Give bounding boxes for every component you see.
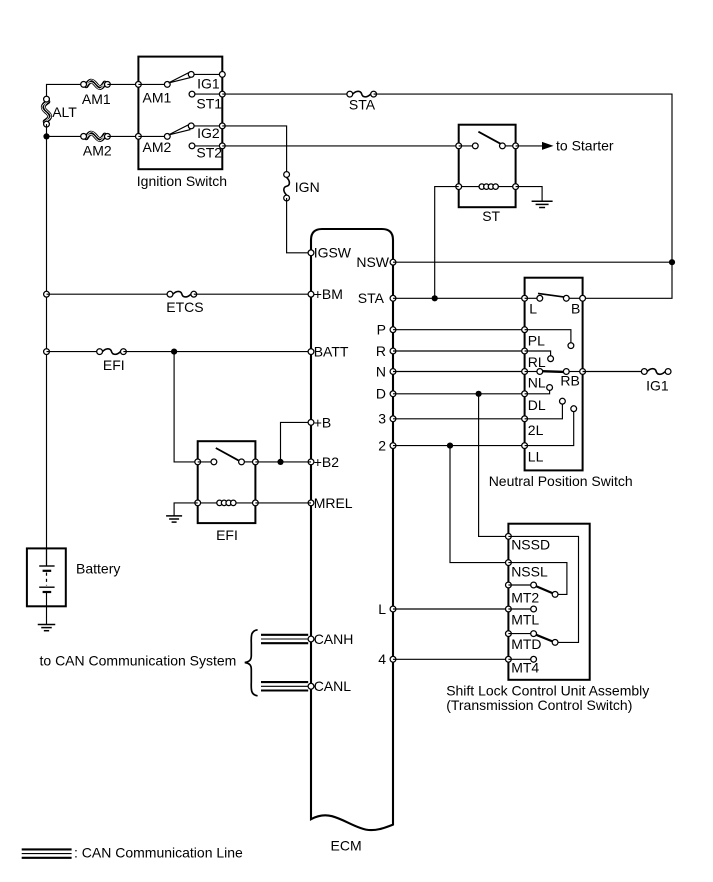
label 4 (ECM) [378,651,386,667]
ECM pin 4 [390,656,396,662]
svg-text:+B2: +B2 [314,454,340,470]
ECM pin L [390,606,396,612]
arrowhead to starter [542,142,554,150]
NPS contact RB [563,369,582,375]
svg-text:NSW: NSW [356,254,389,270]
wire L row [393,608,508,610]
svg-text:ST2: ST2 [196,145,222,161]
wire 3 row [393,418,525,420]
ST relay box [459,125,516,208]
fusible link AM2 [81,132,111,141]
label NSSL [511,563,548,579]
ECM pin CANH [308,636,314,642]
svg-text:STA: STA [349,97,376,113]
fusible link AM1 [81,80,111,89]
ECM pin MREL [308,500,314,506]
battery plate 2 short [43,570,52,572]
svg-text:AM2: AM2 [143,139,172,155]
label MREL [314,495,353,511]
wire ST coil to ground [516,187,543,202]
wire to starter arrow line [516,145,542,147]
wire AM2 fuse to ignition switch [107,135,138,137]
label PL [528,333,545,349]
ST relay pin coil-right [513,184,519,190]
svg-text:STA: STA [358,290,385,306]
label P (ECM) [377,322,386,338]
label +B2 [314,454,340,470]
legend CAN line sample [22,849,72,857]
EFI relay contact left [211,459,217,465]
wire left rail (below ALT to battery) [46,124,48,566]
CAN line CANH [261,635,308,643]
NPS contact NL [537,369,543,375]
label Ignition Switch [137,173,227,189]
wire D row to NSSD [479,394,509,537]
label ST2 (ignition) [196,145,222,161]
ECM pin +B [308,420,314,426]
label L (NPS) [529,301,537,317]
label ECM [331,838,362,854]
svg-text:RL: RL [528,354,546,370]
svg-text:NSSL: NSSL [511,563,548,579]
svg-text:D: D [376,386,386,402]
wire IG2 to IGN column [222,126,286,175]
EFI relay switch arm [216,448,239,460]
svg-text:ST: ST [482,208,500,224]
svg-text:CANH: CANH [314,631,354,647]
ST relay contact left [472,143,478,149]
ECM pin D [390,391,396,397]
label MTD [511,636,541,652]
label NSSD [511,537,550,553]
label IGN [295,179,320,195]
wire AM1 fuse to ignition switch [107,83,138,85]
SL arm MTD [536,635,553,642]
svg-text:EFI: EFI [103,357,125,373]
SL contact MT2 [531,582,537,588]
label N (ECM) [376,363,386,379]
wire +B branch [281,422,312,462]
svg-text:IGSW: IGSW [314,245,352,261]
label L (ECM) [378,601,386,617]
label DL [528,397,546,413]
NPS pin DL [522,390,550,396]
svg-text:NL: NL [528,375,546,391]
svg-text:2: 2 [378,438,386,454]
battery internal wire bottom [46,592,48,606]
label IG2 (ignition) [197,125,220,141]
label AM1 (ignition) [143,89,172,105]
node junction STA row / ST coil [432,295,438,301]
ground (ST relay) [532,201,553,207]
SL pin MTD [506,631,534,637]
label +B [314,414,332,430]
svg-text:RB: RB [560,373,579,389]
SL contact MT4 [531,656,537,662]
ignition switch arm AM2-IG2 [169,125,190,135]
svg-text:+B: +B [314,414,332,430]
ignition switch box [138,57,222,170]
EFI relay pin coil-left [195,500,201,506]
label EFI (relay) [216,527,238,543]
wire STA fuse to right rail [374,94,672,262]
svg-text:Neutral Position Switch: Neutral Position Switch [489,473,633,489]
ignition switch pin AM1 [136,82,168,88]
NPS contact P [568,343,574,349]
label AM2 (fuse) [83,143,112,159]
svg-text:IG2: IG2 [197,125,220,141]
ignition switch pin IG2 [219,123,225,129]
svg-text:R: R [376,343,386,359]
svg-text:PL: PL [528,333,545,349]
label Shift Lock Control Unit Assembly [446,683,649,699]
neutral position switch box [525,278,583,471]
label STA (fuse) [349,97,376,113]
wire N row [393,371,525,373]
label CANH [314,631,354,647]
svg-text:to Starter: to Starter [556,138,614,154]
ignition switch contact ST1 [189,91,222,97]
node junction D row [476,391,482,397]
battery dashed link [46,573,48,586]
label RL [528,354,546,370]
ignition switch contact ST2 [189,143,222,149]
svg-text:MT4: MT4 [511,660,539,676]
ECM pin CANL [308,683,314,689]
node junction ALT/AM2 [43,133,49,139]
EFI relay pin switch-in [195,459,214,465]
wire IGN fuse to IGSW pin [287,198,311,253]
svg-text:ALT: ALT [52,104,77,120]
wire ETCS fuse to +BM pin [194,293,311,295]
label STA (ECM) [358,290,385,306]
EFI relay coil [198,500,256,506]
ECM pin IGSW [308,250,314,256]
battery plate 3 long [39,586,54,588]
SL contact MT2-arm [552,592,558,598]
ST relay pin switch-out [513,143,519,149]
fuse IGN [284,172,290,201]
svg-text:AM1: AM1 [82,91,111,107]
label CANL [314,678,352,694]
label EFI (fuse) [103,357,125,373]
svg-text:EFI: EFI [216,527,238,543]
label D (ECM) [376,386,386,402]
svg-text:N: N [376,363,386,379]
NPS pin PL [522,327,571,343]
SL wire NSSD to MTD contact [508,536,578,642]
label MT2 [511,590,539,606]
label R (ECM) [376,343,386,359]
wire right rail NSW to B row [583,262,672,298]
ignition switch contact AM1 [164,82,170,88]
NPS contact B [563,295,582,301]
SL arm MT2 [536,586,553,593]
label Neutral Position Switch [489,473,633,489]
ignition switch pin ST2 [219,143,225,149]
ignition switch pin IG1 [219,72,225,78]
label CAN Communication Line [74,845,243,861]
SL pin MT4 [506,656,534,662]
svg-text:NSSD: NSSD [511,537,550,553]
svg-text:AM1: AM1 [143,89,172,105]
SL pin MT2 [506,582,534,588]
svg-text:ST1: ST1 [196,95,222,111]
label LL [528,449,544,465]
label IGSW [314,245,352,261]
ECM pin +BM [308,291,314,297]
wire EFI feed down to relay [174,352,198,462]
label Transmission Control Switch [446,697,632,713]
label BATT [314,344,349,360]
NPS contact L-stub [571,406,577,412]
svg-text:Ignition Switch: Ignition Switch [137,173,227,189]
ECM pin BATT [308,349,314,355]
battery box [27,548,66,606]
svg-text:ECM: ECM [331,838,362,854]
svg-text:IGN: IGN [295,179,320,195]
wire EFI relay out to +B2 [255,461,311,463]
svg-text:ETCS: ETCS [166,299,203,315]
label Battery [76,561,120,577]
wire BATT row [47,351,100,353]
EFI relay pin switch-out [253,459,259,465]
ECM pin STA [390,295,396,301]
label MTL [511,612,539,628]
wire 2 row to NSSL [450,446,508,563]
wire 2 row [393,445,525,447]
tap circle +BM on left rail [44,291,50,297]
label AM2 (ignition) [143,139,172,155]
wire P row [393,329,525,331]
ECM pin 2 [390,443,396,449]
ground (battery) [38,625,56,631]
SL wire NSSL to MT2 contact [508,563,567,595]
svg-text:: CAN Communication Line: : CAN Communication Line [74,845,243,861]
label to Starter [556,138,614,154]
node junction 2 row [447,443,453,449]
node junction NSW/right rail [669,259,675,265]
label 3 (ECM) [378,411,386,427]
CAN line CANL [261,682,308,690]
SL pin MTL [506,606,534,612]
NPS pin LL [522,412,574,449]
NPS contact L [537,295,543,301]
node junction +B/+B2 [277,459,283,465]
NPS pin L [522,295,540,301]
wire battery to ground [46,606,48,624]
svg-text:L: L [529,301,537,317]
svg-text:DL: DL [528,397,546,413]
battery internal wire top [46,548,48,566]
SL contact MTD-arm [552,640,558,646]
EFI relay pin coil-right [253,500,259,506]
SL pin NSSD [506,534,512,540]
wire AM2 row feed [47,135,84,137]
svg-text:LL: LL [528,449,544,465]
wire ST coil to STA row [435,187,459,299]
ECM outline [311,229,393,830]
ignition switch pin ST1 [219,91,225,97]
ignition switch contact IG1 [188,72,222,78]
NPS contact N-stub [547,385,553,391]
EFI relay box [198,441,256,523]
label MT4 [511,660,539,676]
wire EFI coil to MREL [255,502,311,504]
wire D row [393,393,525,395]
fuse STA [347,91,377,97]
NPS pin B [580,295,586,301]
fusible link ALT [42,96,51,127]
label RB [560,373,579,389]
svg-text:2L: 2L [528,422,544,438]
ignition switch pin AM2 [136,134,168,140]
label 2L [528,422,544,438]
label NSW [356,254,389,270]
NPS pin RB-out [580,369,586,375]
wire 4 row [393,658,508,660]
label NL [528,375,546,391]
ignition switch contact AM2 [164,134,170,140]
NPS pin RL [522,348,551,356]
NPS switch arm L-B [538,293,566,297]
label IG1 (fuse) [646,377,669,393]
EFI relay contact right [239,459,256,465]
SL pin NSSL [506,560,512,566]
label ST1 (ignition) [196,95,222,111]
svg-text:P: P [377,322,386,338]
label 2 (ECM) [378,438,386,454]
SL contact MTD [531,631,537,637]
svg-text:BATT: BATT [314,344,349,360]
fuse ETCS [167,291,197,297]
wire ST1 to STA fuse [222,93,349,95]
svg-text:MTD: MTD [511,636,541,652]
svg-text:CANL: CANL [314,678,352,694]
label ETCS [166,299,203,315]
ST relay pin coil-left [456,184,462,190]
ST relay coil [459,184,516,190]
ECM pin R [390,348,396,354]
fuse EFI [97,349,127,355]
tap circle BATT on left rail [44,349,50,355]
battery plate 4 short [43,591,52,593]
NPS pin 2L [522,404,563,422]
ECM pin 3 [390,416,396,422]
ST relay switch arm [478,132,501,145]
label ST [482,208,500,224]
ground (EFI relay) [166,516,182,522]
label IG1 (ignition) [197,75,220,91]
fuse IG1 [641,369,671,375]
wire ST2 to ST relay [222,145,458,147]
ST relay contact right [500,143,516,149]
label AM1 (fuse) [82,91,111,107]
svg-text:+BM: +BM [314,286,343,302]
wire +BM row [47,293,171,295]
SL contact MTL [531,606,537,612]
wire left rail top segment (ALT to AM1 row corner) [47,84,84,99]
NPS contact R [548,356,554,362]
svg-text:MT2: MT2 [511,590,539,606]
NPS closed bar NL-RB [542,370,564,373]
label ALT [52,104,77,120]
ECM pin N [390,369,396,375]
label B (NPS) [571,301,580,317]
ignition switch contact IG2 [188,123,222,129]
battery plate 1 long [39,565,54,567]
wire R row [393,350,525,352]
wire EFI fuse to BATT pin [123,351,311,353]
NPS contact 2-stub [560,398,566,404]
wire RB to IG1 fuse [583,371,645,373]
svg-text:MREL: MREL [314,495,353,511]
NPS pin NL [522,369,540,375]
svg-text:B: B [571,301,580,317]
svg-text:(Transmission Control Switch): (Transmission Control Switch) [446,697,632,713]
svg-text:3: 3 [378,411,386,427]
label to CAN Communication System [40,652,237,668]
brace (CAN system) [245,630,258,696]
ECM pin +B2 [308,459,314,465]
svg-text:4: 4 [378,651,386,667]
svg-text:MTL: MTL [511,612,539,628]
shift lock control unit box [508,524,589,680]
svg-text:AM2: AM2 [83,143,112,159]
wire NSW row [393,261,672,263]
wire EFI coil to ground [174,503,198,516]
svg-text:IG1: IG1 [197,75,220,91]
svg-text:IG1: IG1 [646,377,669,393]
ECM pin NSW [390,259,396,265]
label +BM [314,286,343,302]
wire STA row to NPS [393,297,525,299]
svg-text:L: L [378,601,386,617]
ST relay pin switch-in [456,143,475,149]
ECM pin P [390,327,396,333]
node junction EFI feed [171,349,177,355]
ignition switch arm AM1-IG1 [169,73,190,83]
svg-text:to CAN Communication System: to CAN Communication System [40,652,237,668]
svg-text:Battery: Battery [76,561,120,577]
